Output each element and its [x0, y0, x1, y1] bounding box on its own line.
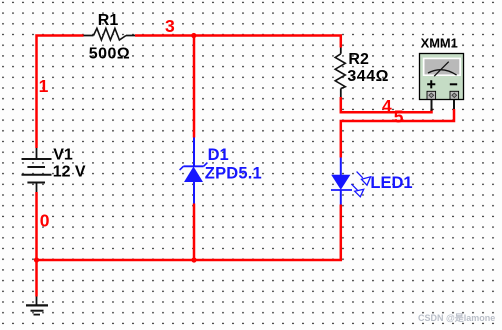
- svg-text:R2: R2: [348, 51, 369, 68]
- svg-text:LED1: LED1: [370, 174, 412, 192]
- svg-text:0: 0: [40, 211, 50, 231]
- svg-text:ZPD5.1: ZPD5.1: [205, 164, 262, 182]
- svg-text:3: 3: [165, 16, 175, 36]
- svg-text:V1: V1: [53, 146, 73, 163]
- svg-text:D1: D1: [208, 146, 229, 164]
- svg-text:1: 1: [39, 76, 49, 96]
- svg-text:5: 5: [394, 106, 404, 126]
- svg-text:XMM1: XMM1: [421, 36, 458, 51]
- svg-text:12 V: 12 V: [53, 164, 86, 181]
- svg-text:500Ω: 500Ω: [89, 45, 131, 62]
- svg-text:4: 4: [382, 96, 392, 116]
- svg-text:R1: R1: [98, 12, 119, 29]
- svg-text:CSDN @是lamone: CSDN @是lamone: [418, 313, 495, 323]
- svg-text:344Ω: 344Ω: [347, 68, 389, 85]
